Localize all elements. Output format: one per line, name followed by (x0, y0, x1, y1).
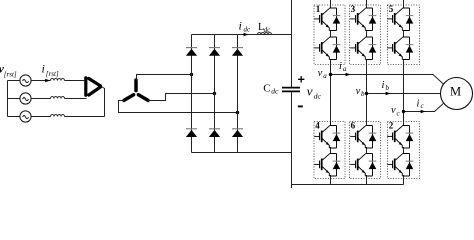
svg-text:c: c (397, 110, 401, 118)
svg-text:i: i (417, 99, 420, 110)
svg-text:dc: dc (264, 26, 272, 34)
svg-text:4: 4 (315, 121, 320, 131)
svg-text:v: v (391, 105, 396, 116)
svg-text:1: 1 (316, 4, 321, 14)
svg-text:a: a (323, 72, 327, 80)
svg-text:6: 6 (351, 121, 356, 131)
svg-text:[rst]: [rst] (46, 70, 59, 78)
svg-text:3: 3 (351, 4, 356, 14)
svg-text:dc: dc (244, 26, 252, 34)
svg-text:5: 5 (389, 4, 394, 14)
svg-text:i: i (42, 62, 45, 76)
svg-text:b: b (361, 90, 365, 98)
svg-text:i: i (239, 19, 242, 33)
svg-text:M: M (450, 84, 461, 98)
svg-text:a: a (343, 65, 347, 73)
svg-text:dc: dc (271, 86, 279, 95)
svg-text:dc: dc (314, 91, 322, 100)
svg-text:C: C (263, 83, 270, 95)
svg-text:c: c (421, 102, 425, 110)
svg-text:i: i (382, 80, 385, 91)
svg-text:[rst]: [rst] (4, 71, 17, 79)
svg-text:v: v (318, 68, 323, 79)
svg-text:i: i (339, 61, 342, 72)
svg-text:2: 2 (389, 121, 394, 131)
svg-text:v: v (356, 86, 361, 97)
svg-text:v: v (307, 84, 313, 99)
svg-text:b: b (386, 84, 390, 92)
